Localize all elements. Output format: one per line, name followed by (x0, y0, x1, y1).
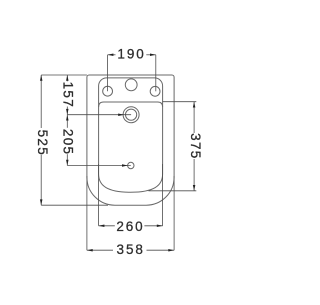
dim 205 line (66, 115, 68, 128)
dim 157 arrows (66, 75, 69, 81)
middle hole (125, 79, 137, 91)
svg-text:205: 205 (61, 129, 76, 155)
dim 375 line (193, 102, 195, 133)
dim 260 extension left (bowl side extended) (98, 164, 100, 226)
svg-text:260: 260 (116, 219, 144, 234)
dim 190 extension line left (107, 55, 109, 91)
svg-text:525: 525 (35, 130, 50, 156)
dim 358 arrows (87, 249, 93, 252)
left tap hole (103, 86, 113, 96)
dim 375 bottom extension (149, 190, 197, 192)
dim 157 leader to faucet (67, 114, 131, 116)
dim 525 line (40, 75, 42, 128)
bidet outer outline (87, 75, 174, 205)
dim 205 arrows (66, 115, 69, 121)
dim 525 bottom extension (41, 204, 108, 206)
deck front edge line (99, 102, 163, 107)
dim 190 line (108, 54, 116, 56)
dim 260 arrows (99, 225, 105, 228)
dim 358 extension left (outer side extended) (86, 176, 88, 250)
bidet inner rim / bowl outline (99, 78, 163, 192)
dim 375 arrows (193, 102, 196, 108)
dim 358 line (87, 249, 113, 251)
faucet hole outer (123, 107, 139, 123)
faucet hole inner (126, 109, 137, 120)
dim 525 top extension (outer top edge extended) (41, 74, 87, 76)
dim 190 extension line right (155, 55, 157, 92)
dim 190 arrows (108, 54, 114, 57)
dim 525 arrows (40, 75, 43, 81)
svg-text:190: 190 (117, 47, 145, 62)
drain hole (128, 162, 134, 168)
dim 157 line (66, 75, 68, 81)
dim 375 top extension (163, 101, 197, 103)
svg-text:157: 157 (61, 82, 76, 108)
svg-text:375: 375 (188, 133, 203, 159)
svg-text:358: 358 (117, 242, 145, 257)
dim 260 line (99, 225, 115, 227)
dim 205 leader to drain (67, 165, 131, 167)
right tap hole (150, 86, 160, 96)
dim 358 extension right (173, 176, 175, 250)
dim 260 extension right (162, 164, 164, 226)
